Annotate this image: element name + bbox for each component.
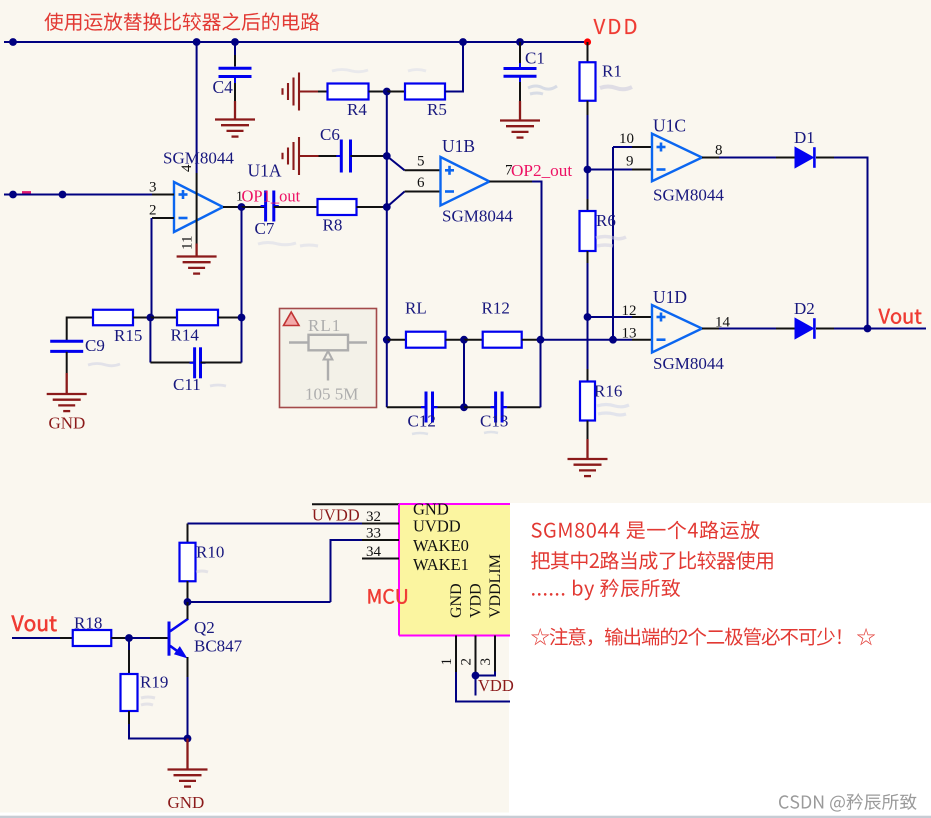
value smudge C11	[88, 364, 226, 387]
resistor R4	[328, 84, 369, 100]
svg-text:13: 13	[622, 326, 637, 342]
node RL left	[383, 336, 391, 344]
ground left of R4	[298, 73, 300, 111]
svg-text:R18: R18	[74, 614, 102, 633]
svg-text:1: 1	[439, 658, 455, 666]
node emitter-R19	[184, 735, 192, 743]
svg-text:105 5M: 105 5M	[305, 385, 358, 404]
svg-text:14: 14	[715, 315, 731, 331]
svg-text:11: 11	[180, 236, 196, 250]
wire node to R12	[464, 339, 483, 341]
collector pin Q2	[187, 602, 189, 619]
capacitor C4	[234, 42, 236, 55]
pin 14 output U1D	[702, 328, 719, 330]
wire node down to C11	[149, 318, 151, 363]
svg-text:34: 34	[366, 544, 382, 560]
wire emitter down	[187, 657, 189, 677]
pin 33 line	[362, 539, 399, 541]
value smudge R16	[597, 405, 629, 416]
resistor R15	[93, 310, 133, 326]
wire R4 to node	[369, 91, 387, 93]
svg-text:10: 10	[619, 131, 634, 147]
ground for C9	[47, 393, 87, 395]
ground for R16	[568, 458, 608, 460]
wiper arrow RL1	[327, 359, 329, 381]
svg-text:2: 2	[149, 203, 157, 219]
svg-text:32: 32	[366, 509, 381, 525]
wire node to R5	[387, 91, 405, 93]
wire feedback down	[241, 207, 243, 318]
wire C12 to node	[433, 406, 438, 408]
node feedback right	[238, 314, 246, 322]
svg-text:U1A: U1A	[248, 161, 282, 181]
pin 3 line U1A	[152, 194, 174, 196]
wire mid node down	[463, 340, 465, 408]
wire R16 to ground	[587, 421, 589, 440]
wire Vout to R18	[12, 637, 60, 639]
svg-text:R19: R19	[140, 673, 168, 692]
svg-text:R14: R14	[171, 326, 200, 345]
ground for Q2	[168, 768, 208, 770]
capacitor C7	[261, 205, 266, 207]
value smudge R10	[196, 571, 208, 572]
pin 4-11 through line U1A	[196, 173, 198, 244]
wire C6 to node	[351, 155, 387, 157]
pin 10 wire vertical	[612, 147, 614, 340]
value smudge R1	[600, 87, 632, 90]
node R8-pin6	[383, 203, 391, 211]
svg-text:R5: R5	[427, 100, 447, 119]
capacitor C1	[519, 42, 521, 63]
pin 9 wire	[588, 169, 633, 171]
pin 1 line	[455, 636, 457, 673]
svg-text:VDD: VDD	[468, 583, 485, 618]
wire pin33	[331, 540, 363, 602]
wire node to base	[129, 637, 150, 639]
pin 12 wire	[588, 316, 633, 318]
svg-text:C6: C6	[320, 125, 340, 144]
wire R1 down	[587, 101, 589, 115]
svg-text:D1: D1	[794, 128, 815, 147]
wire collector rail	[188, 601, 331, 603]
node pin12	[584, 313, 592, 321]
svg-text:SGM8044: SGM8044	[653, 186, 724, 205]
svg-text:C4: C4	[213, 77, 234, 97]
wire R19 to ground node	[128, 711, 130, 724]
bottom page strip	[0, 813, 931, 816]
svg-text:C11: C11	[173, 375, 201, 394]
wire output to C7	[242, 206, 266, 208]
resistor R18	[73, 630, 112, 646]
wire node down to R19	[128, 638, 130, 650]
node C6-pin5	[383, 152, 391, 160]
pin 32 line	[362, 523, 399, 525]
MCU border	[399, 503, 510, 505]
op-amp U1D	[652, 305, 702, 353]
resistor RL	[406, 332, 446, 348]
svg-text:6: 6	[417, 175, 425, 191]
pin 7 output U1B	[490, 181, 533, 183]
MCU label	[369, 589, 407, 604]
svg-text:GND: GND	[168, 793, 205, 812]
value smudge above R4 R5	[332, 70, 426, 72]
wire D2 to Vout	[816, 328, 834, 330]
wire R6 down	[587, 251, 589, 263]
note line2	[531, 551, 773, 570]
svg-text:U1C: U1C	[653, 116, 686, 136]
svg-text:R8: R8	[323, 216, 343, 235]
svg-text:UVDD: UVDD	[413, 517, 461, 536]
svg-text:R16: R16	[594, 382, 622, 401]
diode D2	[795, 318, 813, 339]
wire pin2 to feedback node	[151, 218, 153, 318]
svg-text:2: 2	[459, 658, 475, 666]
svg-text:C13: C13	[480, 412, 508, 431]
marker triangle RL1	[284, 312, 300, 326]
resistor R1	[580, 62, 596, 101]
svg-text:OP2_out: OP2_out	[511, 161, 572, 180]
VDD top label	[594, 19, 637, 34]
wire RL left down	[386, 340, 388, 408]
gray resistor RL1	[309, 335, 349, 351]
capacitor C9	[50, 340, 83, 343]
wire main vertical mid	[386, 92, 388, 340]
svg-text:Q2: Q2	[194, 618, 215, 637]
resistor R6	[580, 211, 596, 251]
op-amp U1C	[652, 134, 702, 182]
wire C11 to right	[201, 362, 242, 364]
wire node to R14	[150, 317, 177, 319]
wire R10 down	[187, 581, 189, 602]
value smudge R8 row	[258, 243, 318, 247]
pin 5 line U1B	[405, 169, 441, 171]
svg-text:R12: R12	[482, 299, 510, 318]
svg-text:UVDD: UVDD	[312, 506, 360, 525]
svg-text:33: 33	[366, 526, 381, 542]
capacitor C13	[491, 406, 496, 408]
node R12-OP2	[537, 336, 545, 344]
svg-text:SGM8044: SGM8044	[653, 354, 724, 373]
capacitor C6	[336, 155, 341, 157]
pin 13 line	[613, 339, 632, 341]
resistor R12	[483, 332, 522, 348]
note line1	[532, 521, 760, 540]
watermark	[779, 793, 917, 811]
svg-text:OP1_out: OP1_out	[242, 187, 301, 206]
node VDD	[584, 38, 591, 45]
wire R15 to node	[133, 317, 150, 319]
svg-text:5: 5	[417, 154, 425, 170]
title 使用运放替换比较器之后的电路	[44, 13, 319, 31]
ground for C4	[215, 118, 255, 120]
wire to pin 6	[387, 192, 405, 208]
ground left of C6	[298, 137, 300, 175]
svg-text:WAKE0: WAKE0	[413, 536, 469, 555]
svg-text:C9: C9	[85, 336, 105, 355]
resistor R8	[318, 199, 357, 215]
node RL-R12	[460, 336, 468, 344]
svg-text:C12: C12	[408, 412, 436, 431]
svg-text:RL1: RL1	[308, 316, 341, 335]
wire R8 to node	[357, 206, 387, 208]
diode D1	[795, 147, 813, 168]
wire to ground Q2	[186, 739, 188, 770]
node pin2 VDD	[472, 672, 480, 680]
note line4	[531, 627, 875, 646]
ground for C1	[500, 119, 540, 121]
wire to pin 5	[387, 156, 405, 170]
wire input net	[4, 194, 152, 196]
svg-text:WAKE1: WAKE1	[413, 555, 469, 574]
VDD stub	[475, 676, 477, 696]
pin 10 line	[613, 146, 632, 148]
svg-text:R15: R15	[114, 326, 142, 345]
svg-text:SGM8044: SGM8044	[442, 207, 513, 226]
svg-text:R4: R4	[347, 100, 367, 119]
value smudge C12 C13	[412, 432, 498, 434]
pin 6 line U1B	[405, 191, 441, 193]
MCU body	[399, 504, 510, 636]
wire pin1 down right	[456, 672, 510, 702]
svg-text:RL: RL	[405, 299, 427, 318]
svg-text:3: 3	[478, 658, 494, 666]
pin 3 line	[494, 636, 496, 672]
resistor R16	[580, 382, 595, 421]
resistor R10	[180, 543, 196, 582]
node R10-collector	[184, 598, 192, 606]
wire D1 to corner	[816, 157, 834, 159]
node base	[125, 634, 133, 642]
wire R12 node down	[540, 340, 542, 408]
wire UVDD to R10	[187, 524, 189, 543]
pin 31 line cut at crop	[312, 503, 399, 505]
resistor R19	[121, 674, 138, 711]
pin 34 line	[362, 558, 399, 560]
svg-text:GND: GND	[49, 414, 86, 433]
node pin9	[584, 166, 592, 174]
svg-text:R1: R1	[602, 62, 622, 81]
svg-text:VDD: VDD	[478, 676, 514, 695]
svg-text:BC847: BC847	[194, 637, 243, 656]
wire RL to node	[446, 339, 465, 341]
svg-text:D2: D2	[794, 299, 815, 318]
wire node to C13	[464, 406, 491, 408]
svg-text:3: 3	[149, 180, 157, 196]
svg-text:R6: R6	[596, 211, 616, 230]
node C12-C13	[460, 403, 468, 411]
value smudge C1	[528, 86, 557, 94]
svg-text:8: 8	[715, 143, 723, 159]
wire VDD to R1	[587, 42, 589, 63]
note line3	[532, 579, 680, 601]
resistor R14	[177, 310, 218, 326]
ground for U1A pin 11	[177, 255, 217, 257]
wire node to RL	[387, 339, 406, 341]
wire R12 to node	[522, 339, 541, 341]
Vout right label	[879, 309, 922, 324]
node R4-R5	[383, 88, 391, 96]
wire OP2_out down to RL node	[532, 182, 542, 340]
wire RL node to pins row	[541, 339, 615, 341]
white region right-bottom	[509, 503, 931, 818]
wire top VDD rail	[4, 41, 588, 43]
node rail C1	[516, 38, 524, 46]
svg-text:U1D: U1D	[653, 287, 687, 307]
node rail R5	[459, 38, 467, 46]
pin 8 output U1C	[702, 157, 719, 159]
node top-left stub	[9, 38, 17, 46]
wire R14 to node	[218, 317, 242, 319]
node Vout	[864, 325, 872, 333]
output wire U1A	[223, 206, 242, 208]
svg-text:SGM8044: SGM8044	[163, 149, 234, 168]
wire C13 to right	[502, 406, 507, 408]
node OP1_out	[238, 203, 246, 211]
svg-text:C7: C7	[255, 219, 275, 238]
svg-text:R10: R10	[196, 543, 224, 562]
svg-text:9: 9	[626, 154, 634, 170]
svg-text:C1: C1	[525, 49, 545, 68]
wire R5 up to rail	[445, 42, 463, 92]
pin 2 line	[475, 636, 477, 676]
pin 4 power line U1A	[196, 43, 198, 173]
capacitor C12	[421, 406, 426, 408]
relay box RL1	[280, 309, 377, 408]
pin 2 line U1A	[152, 217, 174, 219]
svg-text:VDDLIM: VDDLIM	[487, 554, 504, 618]
svg-text:12: 12	[622, 303, 637, 319]
op-amp U1A	[174, 182, 223, 232]
resistor R5	[405, 84, 445, 100]
Vout bottom label	[12, 616, 57, 632]
svg-text:U1B: U1B	[442, 136, 475, 156]
value smudge R6	[596, 237, 626, 247]
wire C7 to R8	[274, 206, 318, 208]
wire R18 to node	[111, 637, 125, 639]
value smudge R19	[141, 697, 155, 705]
op-amp U1B	[441, 157, 490, 206]
node R15-R14	[147, 314, 155, 322]
no-ERC mark on input wire	[22, 191, 31, 193]
wire C9 to R15	[67, 318, 93, 342]
svg-text:GND: GND	[448, 583, 465, 618]
wire pin3 to pin2	[476, 672, 496, 676]
transistor Q2	[168, 622, 171, 656]
capacitor C11	[190, 362, 195, 364]
wire bottom row left	[387, 406, 421, 408]
node pin13-pin10	[609, 336, 617, 344]
